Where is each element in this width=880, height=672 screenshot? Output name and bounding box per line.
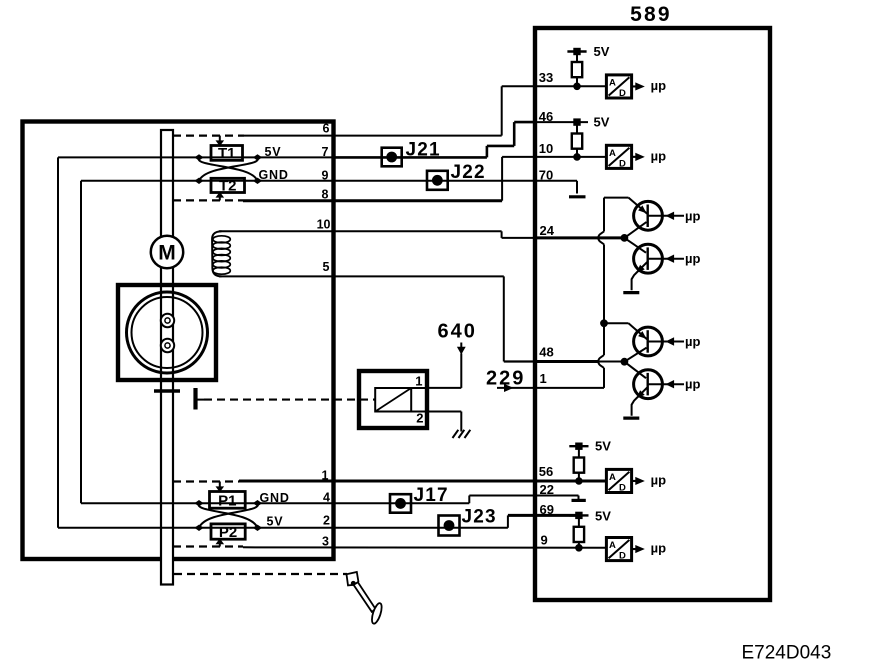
svg-text:5V: 5V (265, 145, 282, 159)
svg-text:2: 2 (323, 514, 330, 528)
svg-text:P1: P1 (218, 493, 236, 510)
svg-text:8: 8 (322, 188, 329, 202)
svg-text:2: 2 (416, 411, 423, 426)
svg-text:T1: T1 (218, 145, 236, 162)
svg-text:69: 69 (540, 502, 554, 517)
svg-text:A: A (609, 148, 616, 159)
svg-text:5V: 5V (595, 509, 611, 524)
svg-text:9: 9 (541, 533, 548, 548)
svg-text:D: D (619, 482, 626, 493)
svg-text:5V: 5V (267, 514, 284, 528)
svg-text:µp: µp (685, 377, 700, 392)
svg-text:70: 70 (539, 167, 553, 182)
svg-text:6: 6 (323, 122, 330, 136)
svg-text:48: 48 (539, 345, 553, 360)
svg-text:D: D (619, 158, 626, 169)
svg-text:µp: µp (651, 473, 666, 488)
svg-text:5V: 5V (595, 439, 611, 454)
svg-text:56: 56 (539, 464, 553, 479)
svg-text:7: 7 (322, 145, 329, 159)
svg-text:GND: GND (260, 491, 290, 505)
svg-text:10: 10 (317, 218, 331, 232)
svg-text:E724D043: E724D043 (742, 643, 832, 664)
svg-text:GND: GND (259, 168, 289, 182)
svg-text:1: 1 (540, 371, 547, 386)
svg-text:J22: J22 (451, 162, 486, 183)
svg-text:µp: µp (685, 334, 700, 349)
svg-text:5V: 5V (594, 114, 610, 129)
svg-text:µp: µp (651, 541, 666, 556)
svg-text:1: 1 (415, 374, 422, 389)
svg-text:µp: µp (685, 251, 700, 266)
svg-text:D: D (619, 551, 626, 562)
svg-text:A: A (609, 540, 616, 551)
svg-text:589: 589 (630, 3, 672, 26)
svg-text:24: 24 (540, 223, 555, 238)
svg-text:µp: µp (651, 148, 666, 163)
svg-text:640: 640 (438, 321, 477, 343)
svg-text:3: 3 (322, 535, 329, 549)
svg-text:22: 22 (540, 482, 554, 497)
svg-text:J21: J21 (406, 140, 441, 161)
svg-text:9: 9 (322, 168, 329, 182)
svg-text:M: M (158, 242, 176, 265)
svg-text:µp: µp (685, 208, 700, 223)
svg-text:10: 10 (539, 141, 553, 156)
svg-text:D: D (619, 88, 626, 99)
svg-text:A: A (609, 78, 616, 89)
svg-text:J23: J23 (462, 507, 497, 528)
svg-text:46: 46 (539, 109, 553, 124)
svg-text:T2: T2 (219, 178, 237, 195)
svg-text:5: 5 (323, 260, 330, 274)
svg-text:33: 33 (539, 70, 553, 85)
svg-text:A: A (609, 472, 616, 483)
svg-text:5V: 5V (594, 44, 610, 59)
svg-text:µp: µp (651, 78, 666, 93)
svg-text:P2: P2 (219, 524, 237, 541)
